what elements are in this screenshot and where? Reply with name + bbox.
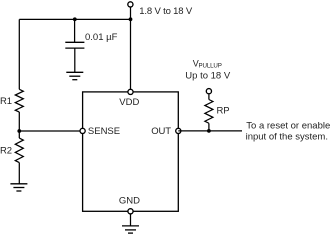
svg-text:R1: R1	[0, 96, 12, 107]
wire SENSE node to SENSE pin	[19, 130, 82, 132]
pin GND	[128, 209, 133, 214]
svg-text:To a reset or enable: To a reset or enable	[246, 121, 330, 132]
node junction capacitor / top rail	[73, 17, 77, 21]
ground below GND pin	[122, 226, 139, 233]
svg-text:GND: GND	[119, 196, 140, 207]
ground below capacitor	[66, 72, 83, 79]
wire SENSE node to R2	[18, 131, 20, 138]
wire OUT pin to annotation	[178, 130, 242, 132]
wire RP to OUT node	[208, 123, 210, 131]
terminal VIN input supply	[128, 2, 133, 7]
svg-text:1.8 V to 18 V: 1.8 V to 18 V	[139, 6, 193, 17]
node junction R1 / R2 / SENSE	[17, 129, 21, 133]
node junction OUT / RP	[207, 129, 211, 133]
node junction VDD / top rail	[129, 17, 133, 21]
ground below R2	[10, 184, 27, 191]
svg-text:VDD: VDD	[119, 97, 139, 108]
svg-text:OUT: OUT	[151, 126, 171, 137]
wire R2 bottom lead	[18, 163, 20, 184]
svg-text:SENSE: SENSE	[88, 126, 120, 137]
pin OUT	[176, 128, 181, 133]
svg-text:RP: RP	[217, 105, 230, 116]
svg-text:R2: R2	[0, 145, 12, 156]
pin SENSE	[80, 128, 85, 133]
svg-text:0.01 µF: 0.01 µF	[85, 32, 118, 43]
svg-text:Up to 18 V: Up to 18 V	[185, 70, 231, 81]
wire GND pin to ground	[130, 214, 132, 226]
resistor R2	[15, 138, 23, 163]
wire capacitor bottom lead	[74, 48, 76, 72]
capacitor C1 0.01 µF	[65, 42, 84, 48]
wire capacitor top lead	[74, 19, 76, 42]
svg-text:input of the system.: input of the system.	[246, 131, 328, 142]
resistor RP	[205, 100, 213, 124]
pin VDD	[128, 89, 133, 94]
wire left rail down to R1	[18, 19, 20, 89]
terminal VPULLUP	[206, 89, 211, 94]
resistor R1	[15, 89, 23, 112]
IC U1 voltage supervisor body	[83, 92, 179, 211]
wire vertical from VIN terminal to VDD pin	[130, 7, 132, 92]
wire top horizontal rail	[19, 18, 130, 20]
wire R1 to SENSE node	[18, 112, 20, 131]
wire VPULLUP terminal to RP	[208, 94, 210, 99]
